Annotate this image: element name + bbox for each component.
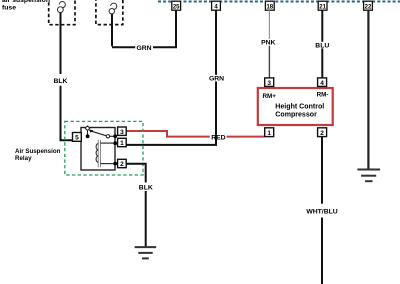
fuse F2 symbol	[109, 3, 117, 14]
relay body	[81, 128, 115, 171]
connector pin 4	[212, 1, 221, 10]
compressor pin 1	[265, 128, 274, 137]
relay junction dot (pin5)	[86, 134, 90, 138]
relay armature arrowhead	[89, 130, 94, 133]
svg-text:fuse: fuse	[2, 4, 16, 11]
svg-text:2: 2	[320, 130, 324, 137]
relay moving contact (circle)	[106, 135, 109, 138]
relay pin 3	[118, 127, 127, 136]
svg-text:1: 1	[267, 130, 271, 137]
fuse F2 dashed box	[96, 0, 123, 25]
svg-text:Air Suspension: Air Suspension	[15, 148, 61, 155]
label: Height Control Compressor	[275, 103, 324, 118]
relay switch pivot (diamond)	[85, 126, 90, 131]
svg-text:2: 2	[120, 161, 124, 168]
svg-text:1: 1	[120, 140, 124, 147]
svg-text:25: 25	[173, 4, 180, 10]
svg-text:PNK: PNK	[261, 40, 275, 47]
bus dashed line (blue)	[158, 1, 400, 3]
svg-text:GRN: GRN	[209, 76, 224, 83]
wire GRN from fuse F2 to connector 25	[112, 10, 176, 47]
svg-text:Compressor: Compressor	[275, 111, 317, 118]
relay dashed enclosure (green)	[65, 121, 143, 175]
svg-text:22: 22	[365, 4, 372, 10]
wire BLU from connector 21 down to compressor pin 4	[321, 10, 323, 78]
svg-text:3: 3	[267, 80, 271, 87]
label: Air Suspension Relay	[15, 148, 61, 162]
connector pin 22	[364, 1, 373, 10]
relay pin 5	[73, 133, 82, 142]
relay switch common link	[87, 131, 89, 135]
ground G1	[135, 247, 157, 258]
svg-text:3: 3	[120, 129, 124, 136]
fuse F1 symbol	[58, 2, 66, 13]
svg-text:Relay: Relay	[15, 155, 32, 162]
wire RED from relay pin 3 to compressor pin 1	[126, 131, 264, 137]
wire coil bottom to pin 2	[100, 163, 113, 165]
fuse F1 dashed box	[49, 0, 75, 25]
svg-text:BLK: BLK	[139, 184, 153, 191]
wire BLK from fuse F1 down to relay pin 5	[61, 13, 73, 141]
wire from connector 22 down to ground G2	[367, 10, 369, 169]
connector pin 21	[318, 1, 327, 10]
svg-text:5: 5	[75, 135, 79, 142]
svg-text:4: 4	[320, 80, 324, 87]
compressor pin 3	[265, 78, 274, 87]
label: air suspension fuse	[2, 0, 50, 11]
relay pin 1	[118, 138, 127, 147]
svg-text:18: 18	[266, 4, 273, 10]
svg-text:21: 21	[319, 4, 326, 10]
connector pin 18	[265, 1, 274, 10]
relay junction dot (pin3)	[113, 134, 117, 138]
svg-text:BLK: BLK	[54, 78, 68, 85]
wire WHT/BLU from compressor pin 2 down	[321, 137, 323, 284]
wire GRN from connector 4 down to relay pin 1	[126, 10, 216, 145]
relay junction dot (pin2)	[113, 162, 117, 166]
svg-text:Height Control: Height Control	[275, 103, 324, 110]
wire BLK from relay pin 2 to ground G1	[126, 164, 145, 247]
svg-text:RM-: RM-	[317, 92, 329, 99]
svg-text:BLU: BLU	[315, 42, 329, 49]
compressor module box	[258, 88, 333, 125]
wire coil top to pin 1	[100, 142, 113, 144]
relay junction dot (pin1)	[113, 141, 117, 145]
compressor pin 4	[318, 78, 327, 87]
relay coil core lines	[98, 140, 100, 167]
svg-text:WHT/BLU: WHT/BLU	[306, 209, 337, 216]
svg-text:GRN: GRN	[136, 45, 151, 52]
relay coil L1	[96, 144, 98, 163]
compressor pin 2	[318, 128, 327, 137]
relay pin 2	[118, 159, 127, 168]
ground G2	[357, 170, 380, 182]
wire contact to pin3 dot	[110, 135, 114, 137]
svg-text:RM+: RM+	[263, 93, 277, 100]
wire PNK from connector 18 down to compressor pin 3	[268, 10, 270, 78]
svg-text:RED: RED	[211, 134, 225, 141]
relay armature	[90, 131, 106, 136]
connector pin 25	[172, 1, 181, 10]
